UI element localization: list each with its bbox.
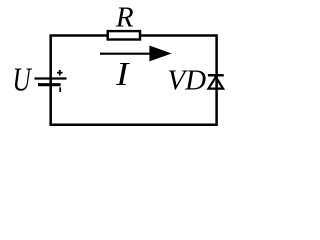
diode VD cathode bar [208,74,224,77]
label U [13,61,33,98]
label I [115,54,131,92]
battery U short negative plate [38,83,61,86]
battery U long positive plate [35,77,67,79]
svg-text:R: R [115,1,134,33]
diode VD triangle [209,77,224,89]
svg-text:I: I [115,54,131,92]
svg-text:U: U [13,61,33,98]
battery minus tick [59,87,61,92]
label R [115,1,134,33]
battery plus sign [57,70,63,76]
wire loop (top, right, bottom, left segments) [51,36,217,125]
label VD [167,65,206,97]
resistor R [108,31,140,39]
svg-text:VD: VD [167,65,206,97]
current arrow I [100,46,172,62]
